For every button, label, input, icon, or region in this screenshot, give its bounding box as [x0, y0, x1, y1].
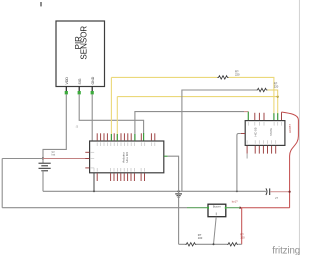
MCU U1 body — [90, 141, 164, 173]
wire yellow1 horizontal to R3 — [111, 76, 217, 78]
node slant junction — [213, 243, 215, 245]
battery BAT1 plates — [39, 163, 51, 171]
svg-text:STATE: STATE — [269, 128, 273, 136]
MCU top pins — [97, 133, 155, 140]
resistor R4 (pulldown, top) — [256, 88, 267, 91]
svg-text::5: :5 — [76, 125, 79, 129]
green pin tip yellow2 — [116, 134, 118, 141]
svg-text:bat: bat — [52, 153, 56, 157]
wire battery minus down — [42, 171, 44, 192]
svg-text:GND: GND — [91, 76, 95, 84]
green pin tip HC yellow2 — [277, 113, 279, 120]
wire pulldown riser from ground — [182, 90, 256, 191]
svg-text:VDD: VDD — [65, 77, 69, 85]
wire green into buzzer — [187, 207, 208, 209]
node MCU GND junction — [93, 190, 95, 192]
svg-text:HC-05: HC-05 — [254, 127, 258, 136]
wire pink tail to HC pin1 — [244, 111, 248, 113]
wire red down to resistor rail — [241, 208, 243, 245]
wire grey MCU to HC pin1 — [135, 112, 244, 141]
PIR pin 3 GND stub — [91, 87, 93, 92]
wire yellow2 MCU pin riser — [116, 97, 118, 141]
HC-05 top pins — [255, 112, 282, 120]
wire yellow1 to HC-05 pin — [229, 77, 274, 114]
green pin tip HC pin1 — [247, 112, 249, 120]
MCU left pins — [85, 152, 89, 168]
MCU top pin labels (ticks) — [97, 142, 155, 146]
wire HC left pin to ground — [237, 134, 241, 192]
MCU right pin — [164, 155, 168, 157]
node battery plus junction — [42, 157, 44, 159]
svg-text:Uno R3: Uno R3 — [125, 152, 129, 163]
wire MCU right pin to ground rail — [168, 156, 179, 244]
buzzer right terminal — [225, 207, 227, 209]
wire battery plus to left edge — [2, 158, 43, 160]
svg-text:100: 100 — [240, 236, 245, 240]
svg-text:100: 100 — [198, 236, 203, 240]
wire R4 to HC pin — [268, 90, 278, 97]
canvas right edge — [298, 0, 300, 255]
wire yellow2 horizontal to HC-05 — [117, 97, 277, 115]
wire buzzer right to junction (green) — [227, 207, 240, 209]
svg-text:Buzzer: Buzzer — [213, 206, 221, 209]
green pin tip yellow1 — [110, 134, 112, 141]
node ground junction — [178, 190, 180, 192]
PIR pin 2 terminal — [78, 91, 81, 94]
node cap/red junction — [289, 191, 291, 193]
wire bottom run to buzzer — [2, 207, 187, 209]
PIR pin 3 terminal — [91, 91, 94, 94]
PIR pin 1 VDD stub — [65, 87, 67, 92]
HC-05 bottom pins — [247, 146, 276, 159]
wire red bottom run — [240, 207, 290, 209]
wire rail mid — [197, 243, 228, 245]
node buzzer/red junction — [239, 207, 241, 209]
resistor R3 (series, top) — [217, 76, 228, 79]
wire left edge vertical — [1, 159, 3, 208]
wire rail right — [238, 243, 241, 245]
green pin tip SIG at MCU — [143, 133, 145, 141]
MCU bottom pins — [97, 173, 144, 181]
HC-05 top pin ticks — [248, 122, 281, 126]
green pin tip grey wire at MCU — [134, 134, 136, 141]
wire yellow1 MCU pin riser — [110, 77, 112, 140]
svg-text:HC05?: HC05? — [288, 124, 292, 133]
buzzer symbol tick — [215, 213, 217, 216]
wire ground bus — [43, 190, 266, 192]
svg-text:220: 220 — [274, 84, 279, 88]
MCU left pin label ticks — [91, 152, 95, 168]
wire PIR VDD down-left to battery node — [43, 94, 66, 158]
ground symbol — [175, 194, 182, 198]
svg-text:220: 220 — [235, 72, 240, 76]
node HC left-pin junction — [236, 190, 238, 192]
svg-text:fritzing: fritzing — [272, 245, 300, 255]
HC-05 U2 body — [245, 121, 285, 146]
resistor R1 (bottom left) — [185, 243, 196, 246]
wire PIR GND down to MCU — [91, 94, 93, 140]
HC-05 bottom pin ticks — [247, 140, 276, 144]
HC-05 left pin — [241, 133, 245, 135]
green pin tip HC yellow1 — [273, 113, 275, 120]
PIR sensor body U3 — [56, 21, 105, 87]
buzzer left terminal — [207, 207, 209, 209]
wire cap to red net (pink) — [270, 191, 289, 193]
PIR pin 1 terminal — [65, 91, 68, 94]
wire red HC pin to right edge — [282, 112, 299, 208]
svg-text:SENSOR: SENSOR — [80, 26, 89, 60]
wire PIR SIG to MCU top pin — [79, 94, 143, 133]
wire resistor rail left — [179, 243, 186, 245]
svg-text:c?: c? — [275, 196, 278, 200]
resistor R2 (bottom right) — [227, 243, 238, 246]
MCU bottom pin labels (ticks) — [94, 168, 145, 172]
svg-text:bz1?: bz1? — [232, 199, 238, 203]
PIR pin 2 SIG stub — [78, 87, 80, 92]
capacitor C1 — [265, 191, 268, 193]
buzzer BZ1 body — [208, 204, 226, 217]
node yellow2/R join — [277, 96, 279, 98]
stray part mark top-left — [40, 2, 41, 6]
wire battery plus to MCU VIN (rose) — [43, 158, 90, 160]
wire battery plus stub — [42, 159, 44, 164]
wire MCU GND pin drop — [93, 173, 95, 191]
svg-text:SIG: SIG — [78, 78, 82, 84]
wire buzzer bottom slant — [214, 217, 217, 245]
